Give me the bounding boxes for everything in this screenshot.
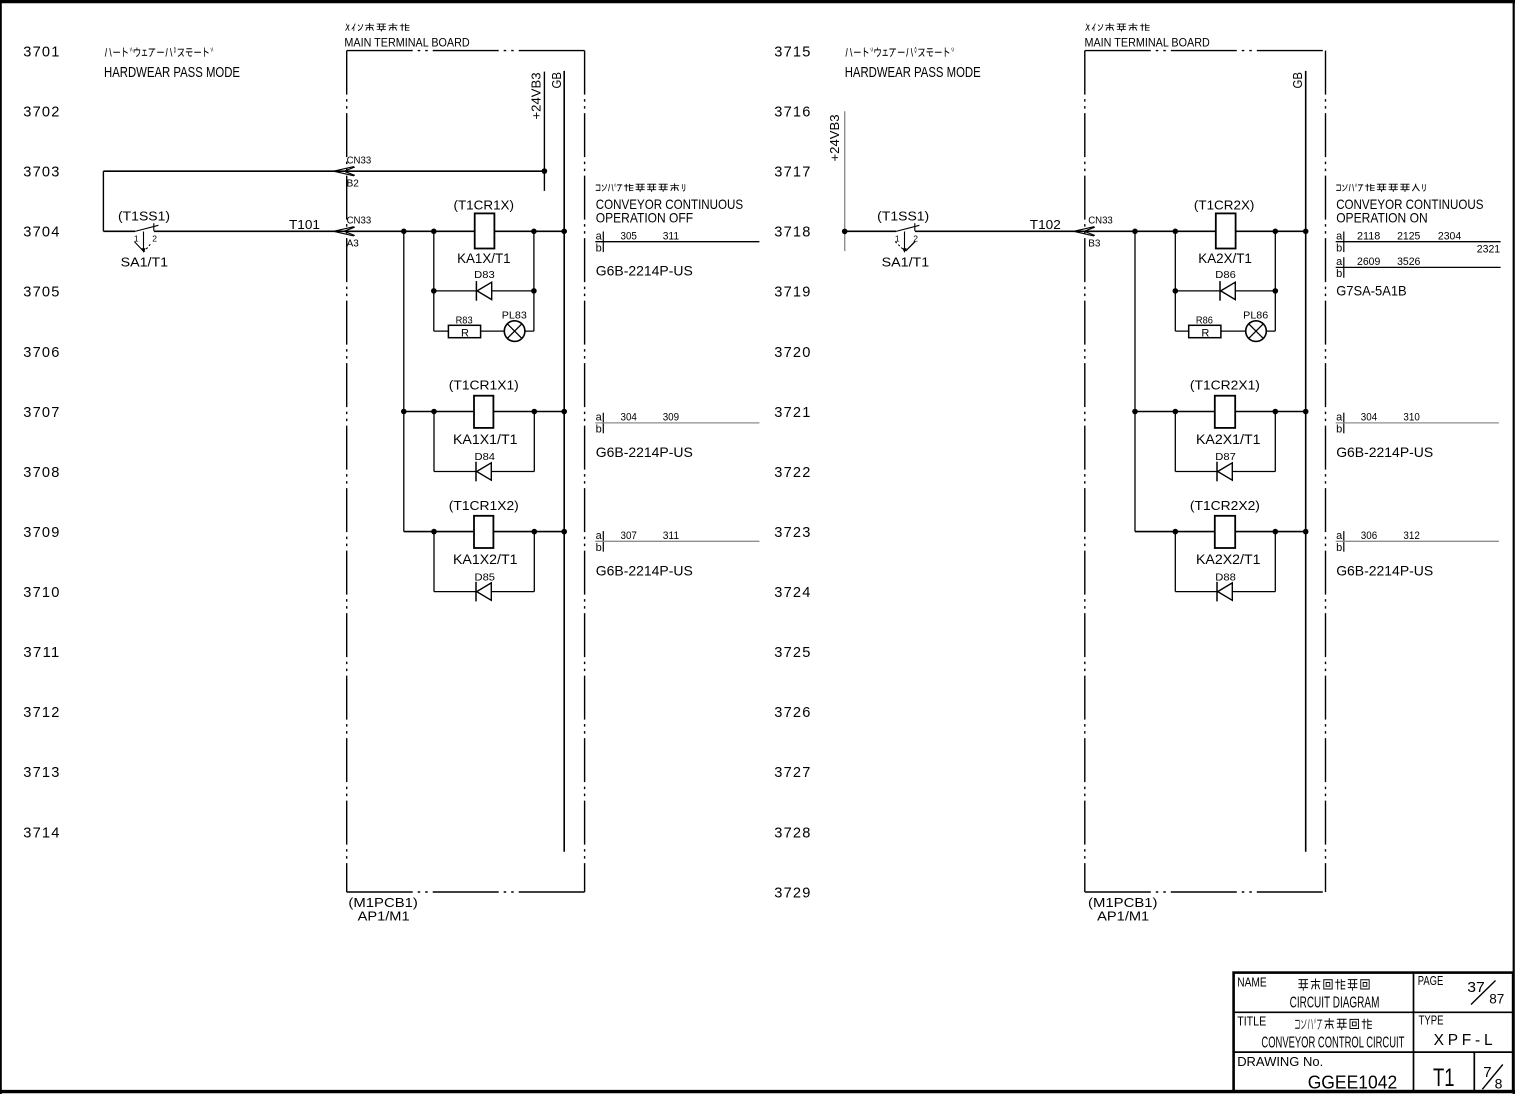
svg-text:KA2X2/T1: KA2X2/T1	[1196, 552, 1261, 567]
svg-text:a: a	[1336, 231, 1343, 243]
terminal line rung 2 (right section)	[1336, 412, 1499, 436]
relay rung 1 verticals (left section)	[434, 231, 534, 331]
drop wire to lower rungs (left section)	[403, 231, 405, 531]
svg-text:3713: 3713	[23, 764, 60, 781]
relay coil KA2X/T1 (right section)	[1216, 213, 1236, 248]
relay coil KA2X1/T1 (right section)	[1215, 396, 1235, 428]
svg-text:MAIN TERMINAL BOARD: MAIN TERMINAL BOARD	[1085, 35, 1211, 49]
svg-text:b: b	[1336, 542, 1342, 554]
svg-text:b: b	[1336, 268, 1342, 280]
title block PAGE cell 37/87	[1418, 973, 1505, 1006]
GB bus line (left section)	[549, 71, 564, 852]
svg-text:3719: 3719	[774, 284, 811, 301]
junction dots rung 1 (right section)	[1132, 229, 1308, 294]
wire row 3704 (right section)	[845, 230, 1306, 232]
svg-text:3715: 3715	[774, 44, 811, 61]
svg-text:D86: D86	[1215, 269, 1236, 281]
svg-text:TYPE: TYPE	[1419, 1013, 1444, 1028]
svg-text:A3: A3	[347, 239, 360, 250]
left line numbers 3701-3714	[23, 44, 60, 842]
svg-text:OPERATION ON: OPERATION ON	[1336, 210, 1428, 226]
svg-text:CONVEYOR CONTROL CIRCUIT: CONVEYOR CONTROL CIRCUIT	[1261, 1034, 1404, 1051]
svg-text:KA1X1/T1: KA1X1/T1	[453, 432, 518, 447]
svg-text:G7SA-5A1B: G7SA-5A1B	[1336, 282, 1407, 298]
svg-text:G6B-2214P-US: G6B-2214P-US	[596, 444, 693, 460]
svg-text:3710: 3710	[23, 584, 60, 601]
terminal line rung 3 (right section)	[1336, 530, 1499, 554]
svg-text:306: 306	[1361, 530, 1377, 542]
svg-text:a: a	[1336, 530, 1343, 542]
svg-text:SA1/T1: SA1/T1	[882, 255, 930, 270]
svg-text:a: a	[596, 412, 603, 424]
svg-text:T1: T1	[1433, 1064, 1455, 1092]
pilot lamp PL83 (left section)	[502, 309, 527, 341]
svg-text:3701: 3701	[23, 44, 60, 61]
drop wire to lower rungs (right section)	[1134, 231, 1136, 531]
svg-text:b: b	[1336, 424, 1342, 436]
svg-text:3702: 3702	[23, 104, 60, 121]
svg-text:CIRCUIT DIAGRAM: CIRCUIT DIAGRAM	[1290, 994, 1380, 1011]
relay rung 3 (right section)	[1135, 529, 1308, 592]
svg-text:3704: 3704	[23, 224, 60, 241]
svg-text:PL83: PL83	[502, 309, 527, 321]
svg-text:D85: D85	[475, 571, 496, 583]
diode D84 (left section)	[475, 451, 496, 481]
terminal line rung 1 (right section)	[1336, 230, 1501, 280]
svg-text:KA1X2/T1: KA1X2/T1	[453, 552, 518, 567]
label HARDWEAR PASS MODE (left section)	[104, 48, 240, 81]
svg-text:MAIN TERMINAL BOARD: MAIN TERMINAL BOARD	[344, 35, 470, 49]
connector CN33/A3 arrow (left section)	[334, 216, 372, 250]
svg-text:311: 311	[663, 530, 679, 542]
relay coil KA1X1/T1 (left section)	[474, 396, 493, 428]
svg-text:2: 2	[152, 233, 157, 243]
svg-text:R: R	[1201, 328, 1209, 340]
svg-text:3706: 3706	[23, 344, 60, 361]
wire lamp rung (right section)	[1175, 330, 1275, 332]
svg-text:304: 304	[1361, 412, 1377, 424]
svg-text:G6B-2214P-US: G6B-2214P-US	[596, 563, 693, 579]
label (M1PCB1) AP1/M1 (right section)	[1088, 895, 1158, 924]
svg-text:D87: D87	[1215, 451, 1236, 463]
pilot lamp PL86 (right section)	[1243, 309, 1268, 341]
svg-text:R: R	[461, 328, 469, 340]
svg-text:304: 304	[621, 412, 637, 424]
svg-text:3708: 3708	[23, 464, 60, 481]
svg-text:3717: 3717	[774, 164, 811, 181]
terminal line rung 2 (left section)	[595, 412, 759, 436]
title block TYPE cell XPF-L	[1419, 1013, 1493, 1050]
svg-text:3727: 3727	[774, 764, 811, 781]
svg-text:3716: 3716	[774, 104, 811, 121]
diode D85 (left section)	[475, 571, 496, 601]
main terminal board dashed box (right section)	[1085, 51, 1326, 892]
label (M1PCB1) AP1/M1 (left section)	[348, 895, 418, 924]
svg-text:TITLE: TITLE	[1237, 1014, 1266, 1029]
relay coil KA1X/T1 (left section)	[475, 213, 495, 248]
svg-text:3729: 3729	[774, 884, 811, 901]
svg-text:2125: 2125	[1397, 230, 1420, 242]
relay rung 1 verticals (right section)	[1175, 231, 1275, 331]
svg-text:(T1CR2X): (T1CR2X)	[1194, 198, 1255, 212]
relay rung 3 (left section)	[404, 529, 567, 592]
svg-text:DRAWING No.: DRAWING No.	[1237, 1054, 1323, 1069]
svg-text:G6B-2214P-US: G6B-2214P-US	[596, 262, 693, 278]
svg-text:3721: 3721	[774, 404, 811, 421]
svg-text:B3: B3	[1088, 239, 1101, 250]
svg-text:KA1X/T1: KA1X/T1	[457, 251, 511, 266]
svg-text:(T1CR2X2): (T1CR2X2)	[1190, 499, 1260, 513]
svg-text:3705: 3705	[23, 284, 60, 301]
svg-text:GB: GB	[549, 72, 564, 89]
note conveyor continuous operation OFF (left section)	[596, 184, 743, 226]
title block frame	[1234, 973, 1514, 1092]
svg-text:3728: 3728	[774, 824, 811, 841]
svg-text:D84: D84	[475, 451, 496, 463]
title block NAME cell	[1237, 975, 1379, 1012]
svg-text:312: 312	[1403, 530, 1419, 542]
svg-text:3720: 3720	[774, 344, 811, 361]
svg-text:(T1CR1X2): (T1CR1X2)	[449, 499, 519, 513]
svg-text:a: a	[596, 530, 603, 542]
svg-text:CN33: CN33	[347, 216, 372, 227]
relay rung 2 (left section)	[401, 409, 567, 472]
resistor R83 (left section)	[448, 314, 480, 339]
svg-text:87: 87	[1489, 990, 1504, 1006]
diode D86 (right section)	[1215, 269, 1236, 301]
relay coil KA2X2/T1 (right section)	[1215, 516, 1235, 548]
svg-text:(T1SS1): (T1SS1)	[877, 209, 929, 224]
svg-text:CN33: CN33	[1088, 216, 1113, 227]
svg-text:OPERATION OFF: OPERATION OFF	[596, 210, 693, 226]
svg-text:3709: 3709	[23, 524, 60, 541]
svg-text:R86: R86	[1196, 314, 1213, 326]
svg-text:b: b	[596, 243, 602, 255]
svg-text:2304: 2304	[1438, 230, 1461, 242]
title block TITLE cell	[1237, 1014, 1404, 1052]
svg-text:CN33: CN33	[347, 156, 372, 167]
svg-text:3725: 3725	[774, 644, 811, 661]
wire row 3703 (left section)	[103, 171, 544, 231]
svg-text:2321: 2321	[1477, 243, 1500, 255]
junction dots rung 1 (left section)	[401, 229, 567, 294]
svg-text:NAME: NAME	[1237, 975, 1267, 990]
svg-text:HARDWEAR PASS MODE: HARDWEAR PASS MODE	[845, 64, 981, 81]
svg-text:3726: 3726	[774, 704, 811, 721]
relay coil KA1X2/T1 (left section)	[474, 516, 493, 548]
svg-text:8: 8	[1495, 1075, 1503, 1091]
svg-text:PAGE: PAGE	[1418, 973, 1444, 988]
svg-text:2118: 2118	[1357, 230, 1380, 242]
svg-text:G6B-2214P-US: G6B-2214P-US	[1336, 444, 1433, 460]
+24VB3 supply line (right section)	[827, 111, 848, 251]
svg-text:b: b	[596, 542, 602, 554]
svg-text:HARDWEAR PASS MODE: HARDWEAR PASS MODE	[104, 64, 240, 81]
selector switch SA1/T1 (left section)	[134, 223, 159, 253]
note conveyor continuous operation ON (right section)	[1336, 184, 1483, 226]
svg-text:D88: D88	[1215, 571, 1236, 583]
svg-text:KA2X/T1: KA2X/T1	[1198, 251, 1252, 266]
svg-text:GGEE1042: GGEE1042	[1308, 1073, 1398, 1093]
svg-text:3712: 3712	[23, 704, 60, 721]
GB bus line (right section)	[1290, 71, 1306, 852]
label HARDWEAR PASS MODE (right section)	[845, 48, 981, 81]
svg-text:a: a	[1336, 412, 1343, 424]
svg-text:(T1CR1X1): (T1CR1X1)	[449, 379, 519, 393]
wire lamp rung (left section)	[434, 330, 534, 332]
svg-text:(T1CR1X): (T1CR1X)	[454, 198, 515, 212]
+24VB3 supply line (left section)	[528, 72, 547, 191]
svg-text:3526: 3526	[1397, 256, 1420, 268]
wire row 3704 (left section)	[103, 230, 564, 232]
svg-text:AP1/M1: AP1/M1	[358, 908, 410, 923]
svg-text:(T1CR2X1): (T1CR2X1)	[1190, 379, 1260, 393]
terminal line rung 1 (left section)	[595, 230, 759, 254]
svg-text:a: a	[1336, 256, 1343, 268]
svg-text:309: 309	[663, 412, 679, 424]
svg-text:T102: T102	[1030, 217, 1061, 232]
svg-text:310: 310	[1403, 412, 1419, 424]
svg-text:+24VB3: +24VB3	[528, 73, 543, 120]
svg-text:PL86: PL86	[1243, 309, 1268, 321]
terminal line rung 3 (left section)	[595, 530, 759, 554]
diode D88 (right section)	[1215, 571, 1236, 601]
label MAIN TERMINAL BOARD (left section)	[344, 23, 470, 49]
svg-text:+24VB3: +24VB3	[827, 115, 842, 162]
label MAIN TERMINAL BOARD (right section)	[1085, 23, 1211, 49]
svg-text:AP1/M1: AP1/M1	[1097, 908, 1149, 923]
right line numbers 3715-3729	[774, 44, 811, 902]
svg-text:b: b	[1336, 243, 1342, 255]
selector switch SA1/T1 (right section)	[895, 223, 920, 253]
svg-text:3718: 3718	[774, 224, 811, 241]
svg-text:T101: T101	[289, 217, 320, 232]
svg-text:3722: 3722	[774, 464, 811, 481]
svg-text:a: a	[596, 231, 603, 243]
resistor R86 (right section)	[1189, 314, 1221, 339]
svg-text:B2: B2	[347, 178, 360, 189]
svg-text:D83: D83	[474, 269, 495, 281]
diode D83 (left section)	[474, 269, 495, 301]
svg-text:b: b	[596, 424, 602, 436]
svg-text:311: 311	[663, 230, 679, 242]
svg-text:3711: 3711	[23, 644, 60, 661]
svg-text:3707: 3707	[23, 404, 60, 421]
wire diode rung D86 (right section)	[1175, 290, 1275, 292]
svg-text:305: 305	[621, 230, 637, 242]
svg-text:GB: GB	[1290, 72, 1305, 89]
diode D87 (right section)	[1215, 451, 1236, 481]
title block DRAWING No. cell GGEE1042	[1237, 1054, 1397, 1093]
svg-text:(T1SS1): (T1SS1)	[118, 209, 170, 224]
svg-text:2609: 2609	[1357, 256, 1380, 268]
svg-text:XPF-L: XPF-L	[1434, 1032, 1493, 1049]
svg-text:SA1/T1: SA1/T1	[121, 255, 169, 270]
svg-text:3724: 3724	[774, 584, 811, 601]
connector CN33/B2 arrow (left section)	[334, 156, 372, 190]
svg-text:307: 307	[621, 530, 637, 542]
svg-text:KA2X1/T1: KA2X1/T1	[1196, 432, 1261, 447]
svg-text:3723: 3723	[774, 524, 811, 541]
svg-text:G6B-2214P-US: G6B-2214P-US	[1336, 563, 1433, 579]
relay rung 2 (right section)	[1132, 409, 1308, 472]
svg-text:3714: 3714	[23, 824, 60, 841]
wire diode rung D83 (left section)	[434, 290, 534, 292]
svg-text:R83: R83	[456, 314, 473, 326]
svg-text:3703: 3703	[23, 164, 60, 181]
title block sheet cell 7/8	[1482, 1064, 1503, 1091]
connector CN33/B3 arrow (right section)	[1074, 216, 1114, 250]
main terminal board dashed box (left section)	[347, 51, 585, 892]
